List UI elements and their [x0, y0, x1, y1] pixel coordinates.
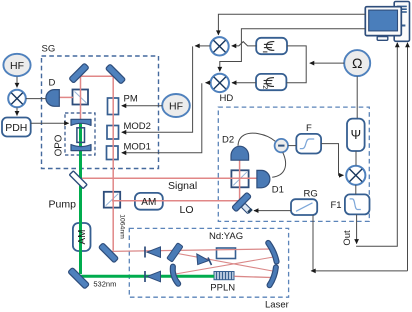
svg-text:532nm: 532nm: [93, 280, 116, 289]
svg-text:1064nm: 1064nm: [118, 214, 125, 239]
AM modulator (LO arm): [135, 193, 163, 210]
filter F1 box: [345, 194, 370, 214]
PDH servo box: [2, 118, 31, 137]
curved mirror lower-right: [270, 267, 276, 285]
oscillator HF left: [3, 54, 30, 76]
detector D1: [257, 170, 270, 187]
wire red beam laser diagonal 2: [173, 257, 274, 275]
detector D2: [231, 146, 249, 160]
svg-text:Ω: Ω: [352, 55, 362, 71]
wire node to MOD1: [122, 83, 202, 153]
wire D1 to subtractor: [272, 153, 285, 178]
filter F box: [296, 134, 321, 154]
wire mixer1 output left: [195, 45, 210, 47]
local oscillator Omega: [344, 50, 370, 76]
svg-text:MOD1: MOD1: [124, 142, 151, 153]
ramp generator RG box: [291, 199, 317, 215]
wire red beam laser diagonal 1: [175, 253, 273, 271]
tilted etalon top-left: [167, 243, 183, 262]
wire HF right to PM: [122, 105, 162, 107]
Nd:YAG crystal: [217, 248, 236, 259]
svg-text:D: D: [49, 78, 56, 89]
wire detector D to mixer: [26, 98, 46, 100]
svg-text:OPO: OPO: [54, 134, 65, 156]
wire PDH to OPO: [31, 122, 69, 124]
mirror M1 top of SG: [69, 63, 89, 83]
svg-text:SG: SG: [42, 44, 56, 55]
piezo mirror: [232, 192, 252, 212]
wire F1 to computer: [357, 43, 398, 247]
svg-text:Signal: Signal: [168, 180, 197, 192]
svg-text:Laser: Laser: [265, 300, 289, 311]
svg-text:RG: RG: [304, 189, 318, 200]
wire mixer2 output left: [206, 82, 211, 84]
wire red beam mirror1 down to OPO: [80, 76, 82, 120]
svg-text:LO: LO: [180, 204, 194, 216]
wire RG down: [312, 215, 314, 271]
wire subtractor to F: [288, 145, 296, 147]
output coupler prism bottom: [145, 271, 161, 282]
beamsplitter BS2 near laser: [104, 192, 120, 208]
wire Omega to Psi: [356, 76, 358, 118]
svg-text:D1: D1: [272, 185, 284, 196]
mixer 2 demodulation HD: [211, 74, 229, 92]
wire mixer to PDH: [16, 108, 18, 116]
wire HF to mixer: [16, 77, 18, 88]
svg-text:PDH: PDH: [5, 122, 27, 134]
wire red beam BS1 to detector D: [60, 96, 74, 98]
PPLN crystal: [214, 272, 234, 280]
modulator MOD2: [107, 126, 119, 140]
computer stand: [377, 37, 388, 41]
subtractor minus circle: [275, 139, 288, 152]
wire node to MOD2: [122, 46, 193, 132]
SG dashed box: [42, 56, 159, 169]
Laser dashed box: [129, 228, 288, 297]
oscillator HF right: [162, 94, 190, 117]
svg-text:D2: D2: [222, 135, 234, 146]
svg-text:MOD2: MOD2: [124, 121, 151, 132]
wire F1 down with arrow: [356, 215, 358, 244]
wire red beam Signal: [81, 177, 257, 179]
wire red beam mirror1-mirror2: [80, 75, 116, 77]
phase modulator PM: [108, 98, 119, 115]
AM modulator (pump arm): [73, 223, 91, 251]
wire D2 to subtractor: [238, 133, 275, 146]
svg-text:Nd:YAG: Nd:YAG: [209, 231, 243, 242]
detector D: [46, 90, 59, 107]
wire bottom horizontal with arrow: [311, 270, 407, 272]
svg-text:AM: AM: [141, 197, 156, 208]
wire red beam LO vertical to D2: [239, 160, 241, 200]
svg-text:Ψ: Ψ: [351, 128, 361, 142]
svg-text:Out: Out: [342, 230, 353, 246]
wire F to mixer3: [321, 144, 343, 176]
brewster plate center: [197, 254, 212, 265]
OPO nonlinear crystal: [77, 128, 85, 143]
homodyne beamsplitter BS3: [231, 170, 248, 187]
wire computer to mixer2: [220, 29, 365, 72]
mixer for PDH: [8, 90, 26, 108]
OPO bottom mirror: [71, 145, 91, 151]
curved mirror bottom-left: [173, 267, 178, 284]
wire green beam vertical pump: [79, 122, 82, 274]
svg-text:2: 2: [261, 85, 268, 89]
computer monitor: [365, 7, 401, 36]
OPO top mirror: [71, 119, 91, 125]
wire red beam LO horizontal: [112, 200, 240, 202]
wire f2 to mixer2: [232, 82, 256, 84]
HD dashed box: [218, 107, 369, 221]
wire red beam main vertical 1064nm: [112, 75, 114, 251]
svg-text:PM: PM: [124, 94, 138, 105]
svg-text:HD: HD: [220, 93, 234, 104]
mixer 1 demodulation: [210, 37, 228, 55]
beamsplitter BS1 in SG: [73, 90, 89, 105]
wire Psi to mixer3: [355, 151, 357, 165]
filter box f1: [256, 38, 287, 54]
wire red beam 1064 laser output: [110, 249, 272, 251]
wire f1 to mixer1 with hop: [232, 42, 256, 46]
svg-text:AM: AM: [77, 230, 88, 245]
dichroic mirror: [69, 171, 87, 189]
computer tower: [394, 2, 409, 42]
mirror 1064 steering: [98, 243, 118, 263]
svg-text:F1: F1: [331, 200, 342, 211]
wire bottom to computer: [407, 43, 409, 271]
wire green beam 532nm horizontal: [80, 275, 214, 278]
svg-text:HF: HF: [10, 60, 24, 72]
output coupler prism top: [145, 247, 161, 258]
svg-text:PPLN: PPLN: [210, 283, 235, 294]
mixer 3: [346, 166, 365, 185]
curved mirror upper-right: [268, 243, 276, 262]
svg-text:HF: HF: [169, 101, 183, 113]
mirror 532 steering: [68, 267, 90, 289]
svg-text:F: F: [306, 123, 312, 134]
OPO dashed box: [65, 113, 95, 155]
wire red beam PPLN to lower right mirror: [234, 276, 271, 277]
wire RG to piezo: [254, 210, 291, 212]
svg-text:Pump: Pump: [49, 199, 77, 211]
piezo element behind mirror: [241, 203, 253, 213]
wire computer to mixer1: [218, 14, 365, 35]
phase shifter Psi box: [347, 119, 365, 151]
wire Omega to junction: [310, 62, 344, 64]
mirror M2 top of SG: [105, 64, 125, 84]
wire mixer3 to F1: [355, 185, 357, 194]
filter box f2: [256, 74, 286, 90]
modulator MOD1: [107, 146, 119, 160]
wire f1 f2 junction: [287, 46, 307, 83]
